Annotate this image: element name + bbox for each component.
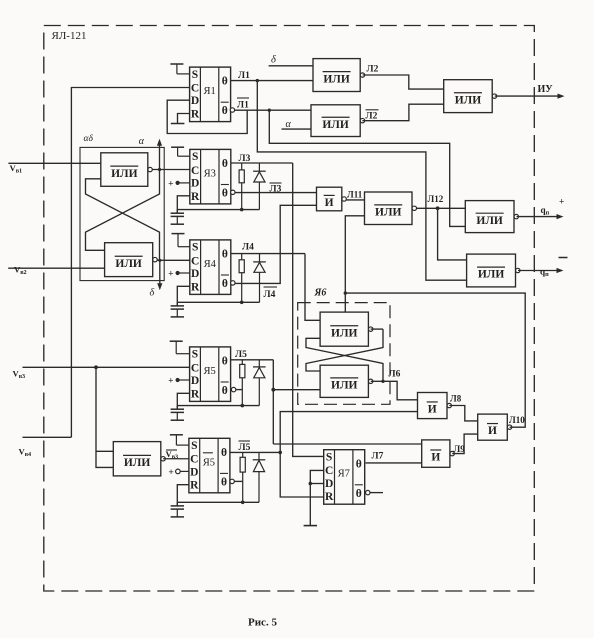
NOR gate Я6 upper body (320, 312, 368, 346)
diode across Л5-bar resistor (253, 459, 266, 461)
svg-text:ИЛИ: ИЛИ (323, 73, 350, 85)
svg-text:ИЛИ: ИЛИ (111, 168, 138, 180)
svg-text:R: R (191, 109, 200, 121)
capacitor at Я5(second).R (176, 502, 178, 505)
svg-text:D: D (191, 375, 199, 387)
Я4.R wire to RC node (177, 286, 190, 306)
NOR gate Л12 body (365, 192, 413, 225)
wire latch feedback α→lower gate (diagonal) (86, 170, 160, 251)
flip-flop Я5 (first) Я5 block body (190, 347, 231, 402)
svg-text:θ: θ (221, 447, 227, 459)
svg-text:+: + (168, 270, 173, 280)
enclosure Я6 (dashed) (298, 303, 390, 405)
svg-text:θ: θ (222, 356, 228, 368)
wire Vв4 (23, 436, 72, 438)
wire Л5 (θ output) (231, 359, 274, 361)
wire Л12 gate lower input from Л10 net (345, 216, 364, 312)
node C-D tie (309, 482, 313, 486)
wire Л8 to Л10 gate (449, 406, 477, 421)
label Vв3-bar (166, 449, 177, 451)
wire δ stub into Л2 gate (269, 65, 313, 67)
svg-text:D: D (325, 478, 333, 490)
Я3.R wire to RC node (177, 196, 190, 214)
svg-text:C: C (325, 465, 333, 477)
NOR gate used as inverter (Vв3-bar) inversion bubble (161, 457, 165, 461)
svg-text:Л5: Л5 (235, 350, 247, 360)
svg-text:+: + (559, 198, 564, 208)
diode leads (258, 452, 260, 459)
svg-text:Л4: Л4 (242, 243, 254, 253)
node resistor-rail junction (241, 404, 245, 408)
Я1.R ground tie (178, 114, 190, 124)
wire latch feedback δ→upper gate (diagonal) (86, 179, 160, 260)
node Л1-bar branch (268, 109, 271, 112)
flip-flop Я4 Я4 block body (190, 240, 231, 295)
svg-text:C: C (191, 255, 199, 267)
NOR gate used as inverter (Vв3-bar) body (113, 442, 161, 476)
svg-text:Л12: Л12 (428, 194, 444, 204)
resistor in Л3 RC (239, 170, 244, 183)
NOR gate Я6 lower inversion bubble (369, 379, 373, 383)
device boundary ЯЛ-121 (dashed) (44, 26, 535, 592)
node resistor-rail junction (240, 301, 244, 305)
wire Л12 down to qп- input (438, 208, 467, 260)
svg-text:R: R (191, 281, 200, 293)
node α (158, 168, 161, 171)
wire Л9 to Л10 gate (452, 434, 478, 454)
wire qп- output (518, 270, 560, 272)
svg-text:И: И (428, 404, 437, 416)
flip-flop Я7 Я7 block body (324, 450, 365, 505)
NOR gate Л2 inversion bubble (360, 73, 364, 77)
wire α output to Я3.C (152, 169, 190, 171)
svg-text:Л10: Л10 (509, 415, 525, 425)
Я3 θ-bar bubble (231, 190, 235, 194)
svg-text:Л6: Л6 (389, 370, 401, 380)
svg-text:S: S (192, 242, 198, 254)
Я7 θ output wire Л7 to Л9 gate (366, 462, 422, 464)
svg-text:Я7: Я7 (338, 469, 350, 480)
svg-text:И: И (431, 452, 440, 464)
wire Vв3 (23, 366, 190, 368)
wire Я4 RC rail (177, 301, 259, 303)
wire Л5 to Л9 gate input (273, 443, 421, 445)
svg-text:ИЛИ: ИЛИ (322, 119, 349, 131)
svg-text:ИЛИ: ИЛИ (455, 94, 482, 106)
label Л3-bar (270, 182, 282, 184)
wire Л5-bar down to Я7.R (280, 452, 324, 497)
svg-text:+: + (168, 180, 173, 190)
svg-text:Л1: Л1 (238, 71, 250, 81)
node Л1 branch (256, 79, 259, 82)
svg-text:θ: θ (222, 105, 228, 117)
wire Я7.C and Я7.D grounded (310, 470, 323, 525)
svg-text:Я6: Я6 (314, 288, 327, 299)
svg-text:Я1: Я1 (203, 86, 215, 97)
svg-text:Л3: Л3 (239, 154, 251, 164)
svg-text:Я5: Я5 (203, 457, 215, 468)
wire Я3 RC rail (177, 209, 259, 211)
NAND gate Л10 inversion bubble (507, 425, 511, 429)
svg-text:S: S (326, 452, 332, 464)
wire Vв1 (8, 162, 100, 164)
resistor leads (241, 163, 243, 170)
Я4 θ-bar bubble (231, 281, 235, 285)
wire Л5-bar (θ output) (230, 451, 280, 453)
svg-text:R: R (325, 491, 334, 503)
svg-text:θ: θ (221, 476, 227, 488)
svg-text:ИЛИ: ИЛИ (478, 269, 505, 281)
label Л1-bar (237, 97, 249, 99)
svg-text:И: И (488, 425, 497, 437)
Я5.S tie symbol (170, 340, 183, 342)
svg-text:Л4: Л4 (264, 290, 276, 300)
diode leads (258, 360, 260, 367)
diode leads (258, 163, 260, 171)
diode across Л3 resistor (253, 170, 266, 172)
wire Я5(second) RC rail (177, 501, 259, 503)
wire δ output to Я4.C (157, 259, 190, 261)
svg-text:Л2: Л2 (367, 65, 379, 75)
svg-text:αδ: αδ (84, 134, 94, 144)
capacitor at Я3.R (176, 210, 178, 213)
svg-text:θ: θ (356, 488, 362, 500)
svg-text:C: C (191, 83, 199, 95)
wire Л11 (346, 199, 364, 201)
diode across Л4 resistor (253, 261, 266, 263)
resistor in Л4 RC (239, 260, 244, 273)
wire Л3-bar to И gate (235, 192, 317, 194)
svg-text:C: C (191, 165, 199, 177)
resistor in Л5-bar RC (240, 457, 245, 472)
NOR gate (α former) inversion bubble (148, 167, 152, 171)
wire Л4-bar up to И gate input (235, 205, 317, 283)
svg-text:ИЛИ: ИЛИ (331, 380, 358, 392)
node Л12 (436, 206, 440, 210)
diode leads (259, 254, 261, 262)
resistor in Л5 RC (240, 364, 245, 377)
wire qп+ output (517, 216, 561, 218)
node Л5-bar branch (278, 451, 282, 455)
NOR gate Л2-bar inversion bubble (360, 118, 364, 122)
svg-text:θ: θ (222, 278, 228, 290)
ground bar below Я7 (304, 525, 317, 527)
resistor leads (241, 360, 243, 365)
wire Я5 RC rail (177, 405, 259, 407)
wire δ arrow (159, 260, 161, 283)
flip-flop Я3 Я3 block body (190, 149, 231, 204)
wire Л1 branch down to qп- input (257, 81, 466, 281)
node resistor-rail junction (241, 501, 245, 505)
svg-text:S: S (191, 440, 197, 452)
wire Л3 (θ output) (231, 162, 293, 164)
wire Vв3-bar output to Я5(second).C (163, 458, 189, 460)
NOR gate qп+ output inversion bubble (514, 214, 518, 218)
wire α stub into Л2-bar gate (282, 128, 312, 130)
svg-text:θ: θ (222, 188, 228, 200)
wire α arrow (159, 146, 161, 170)
NAND gate Л11 body (317, 187, 342, 211)
NOR gate Л2-bar body (311, 105, 360, 137)
wire Л4 (θ output) (231, 253, 305, 255)
wire Я6 cross feedback (lower out to upper in) (381, 380, 384, 383)
wire ИУ output (495, 95, 561, 97)
Я1.S tie symbol (170, 63, 183, 65)
wire Vв2 (8, 267, 104, 269)
svg-text:R: R (191, 191, 200, 203)
svg-text:И: И (325, 197, 334, 209)
svg-text:Л5: Л5 (239, 443, 251, 453)
wire Л1 (θ output to Л2 gate) (231, 80, 313, 82)
svg-text:θ: θ (356, 458, 362, 470)
svg-text:ИЛИ: ИЛИ (476, 215, 503, 227)
svg-text:C: C (191, 362, 199, 374)
svg-text:θ: θ (222, 158, 228, 170)
NOR gate qп- output inversion bubble (516, 268, 520, 272)
Я5(second) θ-bar bubble and stub (230, 479, 234, 483)
svg-text:Л1: Л1 (237, 101, 249, 111)
capacitor at Я4.R (176, 302, 178, 305)
Я5.R wire to RC node (177, 393, 189, 409)
enclosure box αδ (80, 147, 164, 280)
Я4.S tie symbol (172, 233, 185, 235)
svg-text:ИУ: ИУ (538, 84, 554, 95)
svg-text:Я5: Я5 (203, 366, 215, 377)
svg-text:D: D (190, 466, 198, 478)
wire Я6 cross feedback (upper out to lower in) (371, 328, 383, 330)
NOR gate Я6 upper inversion bubble (369, 327, 373, 331)
svg-text:S: S (192, 151, 198, 163)
NOR gate (δ former) inversion bubble (153, 257, 157, 261)
wire Л4 down into Я6 (set input) (305, 254, 320, 321)
wire Л12 output (417, 207, 466, 209)
node Л10 tee (344, 291, 347, 294)
svg-text:α: α (139, 136, 145, 147)
svg-text:ИЛИ: ИЛИ (124, 457, 151, 469)
wire Л1-bar branch down to qп+ input (269, 110, 465, 226)
svg-text:Я3: Я3 (204, 168, 216, 179)
svg-text:D: D (191, 95, 199, 107)
NAND gate Л8 inversion bubble (447, 403, 451, 407)
resistor leads (241, 254, 243, 260)
flip-flop Я5 (second) Я5 block body (189, 438, 230, 493)
svg-text:Л3: Л3 (270, 185, 282, 195)
wire Л5 into Я6 lower gate (273, 389, 320, 391)
Я1.D feedback loop from θ-bar (167, 100, 247, 133)
svg-text:Л8: Л8 (450, 394, 462, 404)
wire Л3 down to Я7.S (293, 163, 324, 456)
capacitor at Я5.R (176, 406, 178, 409)
NOR gate (δ former) body (105, 243, 153, 277)
wire Л2-bar to ИУ gate (362, 104, 443, 121)
svg-text:R: R (191, 388, 200, 400)
NAND gate Л9 inversion bubble (450, 451, 454, 455)
Я1 θ-bar output bubble (230, 108, 234, 112)
svg-text:ИЛИ: ИЛИ (375, 206, 402, 218)
diode across Л5 resistor (253, 366, 266, 368)
svg-text:θ: θ (222, 385, 228, 397)
Я3.S tie symbol (171, 146, 184, 148)
svg-text:θ: θ (222, 249, 228, 261)
NOR gate Я6 lower body (320, 365, 368, 397)
Я5(second).S tie symbol (170, 434, 183, 436)
svg-text:ИЛИ: ИЛИ (331, 327, 358, 339)
svg-text:Я4: Я4 (204, 259, 217, 270)
svg-text:ЯЛ-121: ЯЛ-121 (52, 30, 87, 42)
svg-text:+: + (168, 468, 173, 478)
NAND gate Л8 body (418, 393, 448, 419)
node resistor-rail junction (240, 208, 244, 212)
Я5 θ-bar bubble and stub (231, 387, 235, 391)
NOR gate ИУ output inversion bubble (492, 94, 496, 98)
svg-text:Рис. 5: Рис. 5 (248, 616, 277, 628)
resistor leads (242, 452, 244, 457)
wire Л6 output to Л8 gate (383, 381, 418, 400)
label Л2-bar (366, 109, 379, 111)
NOR gate (α former) body (101, 153, 148, 187)
label Л5-bar (239, 440, 251, 442)
wire Vв4 to Я1.C (left riser) (71, 88, 189, 438)
label Л4-bar (264, 286, 278, 288)
NOR gate qп- output body (467, 254, 516, 287)
svg-text:C: C (190, 454, 198, 466)
wire Л10 output to Л12 gate and Я6 set (345, 293, 525, 427)
svg-text:ИЛИ: ИЛИ (115, 258, 142, 270)
NAND gate Л9 body (422, 440, 450, 467)
node δ (158, 259, 161, 262)
svg-text:+: + (168, 377, 173, 387)
NAND gate Л11 inversion bubble (342, 197, 346, 201)
wire Л1-bar (235, 109, 311, 111)
svg-text:θ: θ (222, 76, 228, 88)
NOR gate ИУ output body (444, 80, 493, 113)
NOR gate Л2 body (313, 59, 360, 92)
wire Л5-bar up to Л8 gate input (280, 412, 417, 453)
node Vв3 branch (94, 365, 98, 369)
NOR gate qп+ output body (465, 201, 514, 233)
wire Л5 down (riser) (272, 360, 274, 444)
svg-text:R: R (190, 480, 199, 492)
NOR gate Л12 inversion bubble (412, 206, 416, 210)
wire Vв3 to inverter inputs (96, 367, 113, 467)
Я5(second).R wire to RC node (177, 485, 189, 506)
svg-text:S: S (192, 349, 198, 361)
svg-text:S: S (192, 69, 198, 81)
svg-text:D: D (191, 178, 199, 190)
Я7 θ-bar bubble and stub (366, 490, 370, 494)
svg-text:Л11: Л11 (347, 190, 363, 200)
svg-text:D: D (191, 268, 199, 280)
flip-flop Я1 Я1 block body (190, 67, 231, 122)
svg-text:δ: δ (150, 288, 155, 299)
svg-text:Л7: Л7 (372, 451, 384, 461)
wire Л2 to ИУ gate (363, 75, 444, 89)
node Л5 branch to Я6 (271, 388, 275, 392)
NAND gate Л10 body (478, 414, 508, 440)
